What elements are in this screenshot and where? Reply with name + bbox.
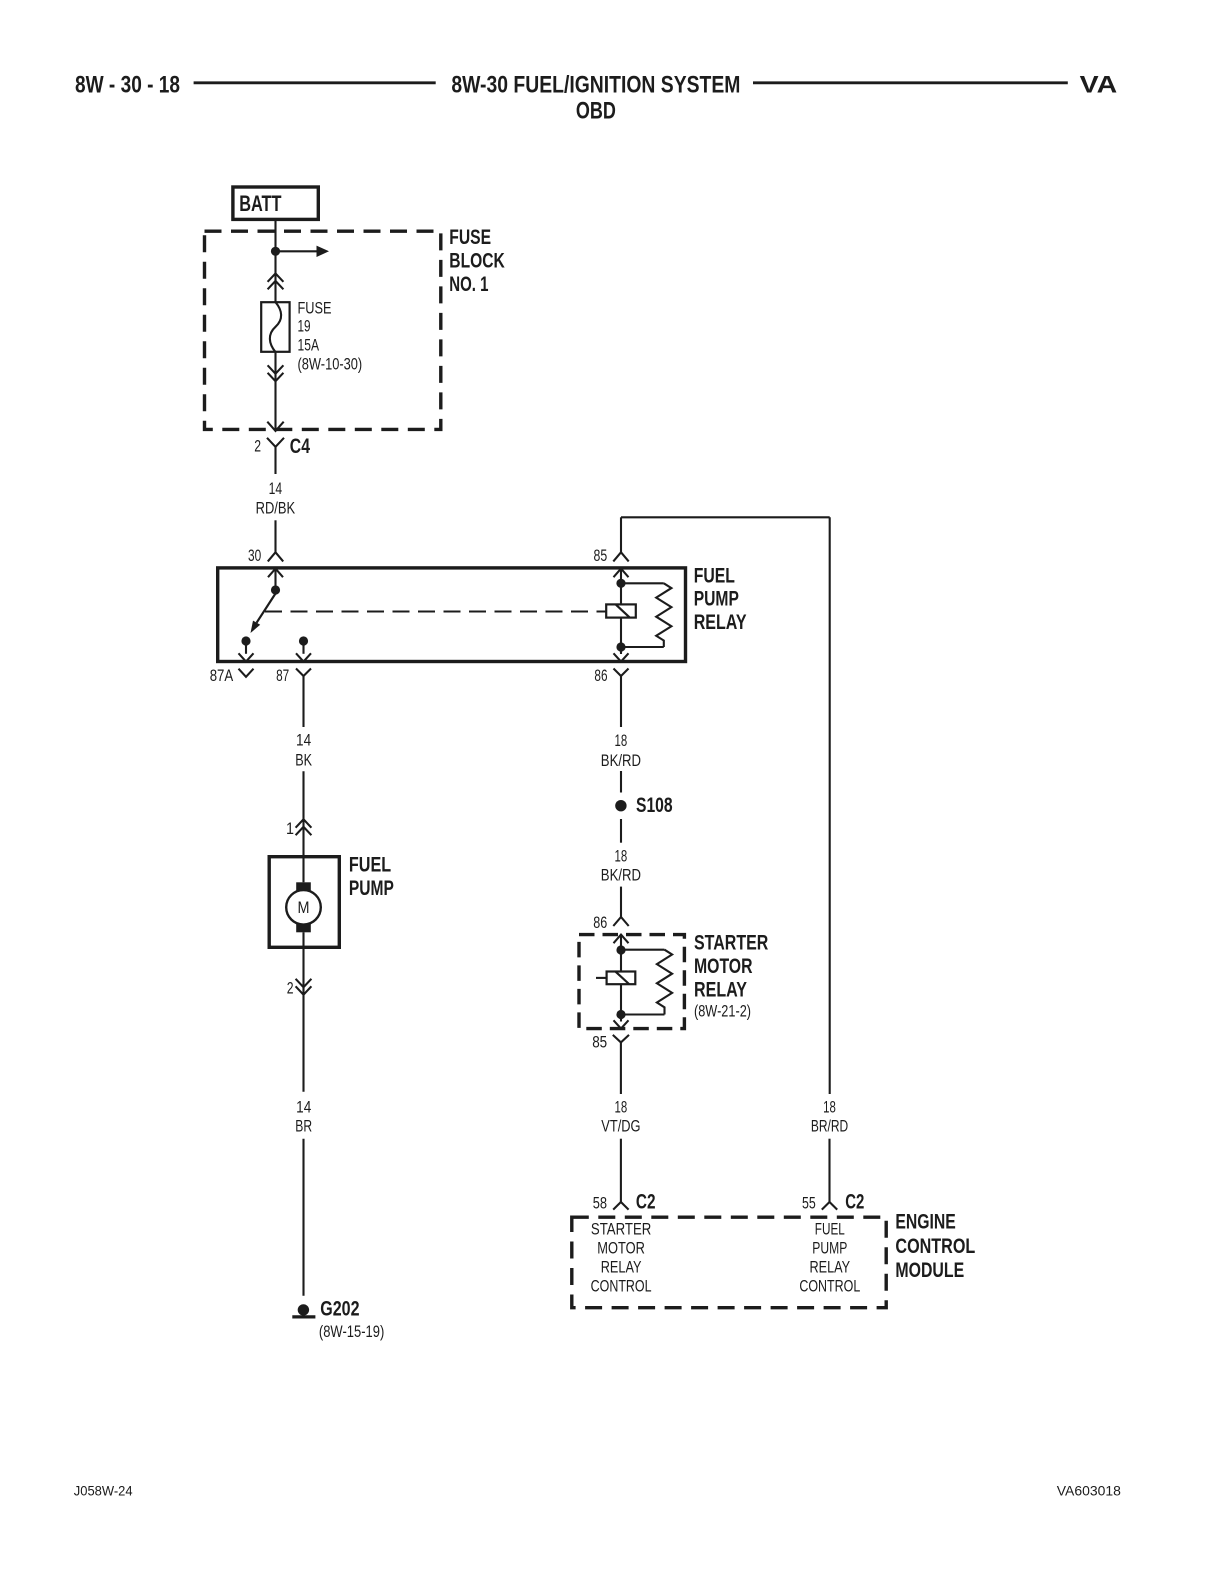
fuse value label FUSE 19 15A (8W-10-30) [298,300,363,374]
motor terminal bottom [296,924,311,932]
ECM pin 58 connector [613,1202,628,1210]
svg-text:19: 19 [298,318,311,336]
svg-text:NO. 1: NO. 1 [449,273,488,296]
wire label 18 VT/DG [601,1099,640,1136]
relay coil [606,604,636,617]
engine control module label [895,1211,975,1283]
svg-text:CONTROL: CONTROL [895,1235,975,1258]
pin 1 connector chevrons [296,819,312,835]
wire branch to other circuits [276,250,317,252]
wire to S108 [620,771,622,793]
connector C2 left [636,1190,656,1213]
svg-text:BK/RD: BK/RD [601,752,641,770]
relay switch armature [251,594,276,634]
svg-text:STARTER: STARTER [694,931,768,954]
svg-text:MOTOR: MOTOR [694,955,753,978]
svg-text:OBD: OBD [576,98,616,125]
motor terminal top [296,882,311,890]
splice S108 [615,794,673,817]
relay internal dashed link [265,611,606,613]
svg-text:CONTROL: CONTROL [591,1278,652,1296]
svg-text:RELAY: RELAY [694,978,747,1001]
fuse block no.1 dashed box [205,231,441,429]
svg-text:58: 58 [593,1194,607,1212]
node splice in fuse block [271,247,280,256]
wire to ECM pin 58 [620,1139,622,1202]
starter relay coil top node [616,945,625,954]
pin 87A internal arrow [239,653,254,661]
fuse block no.1 label [449,226,505,296]
pin 85 connector chevron [613,552,628,561]
pin 58 label [593,1194,607,1212]
pin 30 connector chevron [268,552,283,561]
svg-text:87A: 87A [210,667,234,685]
pin 86 connector [614,669,629,728]
starter relay pin 85 internal arrow [614,1020,629,1028]
svg-text:MODULE: MODULE [895,1259,964,1282]
page header left label 8W - 30 - 18 [75,72,180,99]
svg-text:BLOCK: BLOCK [449,250,505,273]
relay pin 85 internal arrow [614,569,629,605]
pin 87 internal arrow [296,653,311,661]
starter motor relay dashed box K1 [579,935,684,1029]
ECM starter motor relay control label [591,1220,652,1295]
svg-text:18: 18 [823,1099,836,1117]
svg-text:FUSE: FUSE [298,300,332,318]
svg-text:MOTOR: MOTOR [597,1239,645,1257]
svg-text:2: 2 [254,438,261,456]
pin 86 label [594,667,607,685]
wire BATT feed vertical [274,221,276,302]
svg-text:14: 14 [269,480,283,498]
wire label 14 BR [295,1099,312,1136]
wire label 18 BR/RD [811,1099,848,1136]
pin 87 connector [296,669,311,728]
starter relay coil bottom wire [620,984,622,1021]
svg-text:85: 85 [592,1033,607,1051]
pin 87 label [276,667,289,685]
wire to ground lower [302,1139,304,1296]
svg-text:PUMP: PUMP [812,1239,847,1257]
connector C2 right [845,1190,864,1213]
arrow exiting fuse block [267,422,283,431]
svg-text:RD/BK: RD/BK [256,499,296,517]
relay pin 30 internal arrow [268,569,283,590]
svg-text:87: 87 [276,667,289,685]
svg-text:C2: C2 [845,1190,864,1213]
svg-text:RELAY: RELAY [809,1259,850,1277]
svg-text:14: 14 [296,1099,311,1117]
svg-text:(8W-10-30): (8W-10-30) [298,356,363,374]
footer left J058W-24 [74,1483,133,1499]
svg-text:C2: C2 [636,1190,656,1213]
wire label 14 BK [295,731,312,769]
pin 55 label [802,1194,816,1212]
starter relay coil bottom node [616,1010,625,1019]
wire to fuel pump pin 1 [302,771,304,856]
wire to ground upper [302,998,304,1092]
svg-text:BK/RD: BK/RD [601,867,641,885]
svg-text:PUMP: PUMP [349,877,394,900]
header right label VA [1080,72,1118,99]
pin 85 label [594,547,608,565]
svg-text:30: 30 [248,547,261,565]
wire from S108 [620,819,622,843]
starter relay coil link dash [596,977,607,979]
svg-text:(8W-21-2): (8W-21-2) [694,1003,751,1021]
relay resistor bottom link [621,646,664,648]
pin 2 label [287,980,294,998]
pin 2 connector chevrons (down) [296,979,312,995]
wire label 18 BK/RD upper [601,732,641,770]
svg-text:J058W-24: J058W-24 [74,1483,133,1499]
pin 86 internal arrow [614,653,629,661]
svg-text:PUMP: PUMP [694,588,739,611]
svg-text:VA603018: VA603018 [1057,1483,1121,1499]
svg-text:(8W-15-19): (8W-15-19) [319,1323,384,1341]
battery feed box BATT [233,187,318,219]
ECM pin 55 connector [822,1202,837,1210]
svg-text:M: M [298,899,310,917]
svg-text:RELAY: RELAY [601,1259,642,1277]
svg-text:VT/DG: VT/DG [601,1117,640,1135]
svg-text:8W - 30 - 18: 8W - 30 - 18 [75,72,180,99]
wire right column to ECM [829,517,831,1094]
starter relay pin 86 chevron [613,917,628,926]
svg-text:BR: BR [295,1117,312,1135]
pin 87A connector chevron [239,669,254,677]
connector chevrons (double, up) [268,273,284,289]
svg-text:1: 1 [286,820,294,838]
fuel pump label [349,854,394,901]
wire pin 85 riser [620,517,622,552]
svg-text:FUSE: FUSE [449,226,491,249]
svg-text:BATT: BATT [239,191,282,216]
svg-text:2: 2 [287,980,294,998]
starter relay pin 85 connector [613,1035,629,1094]
svg-text:18: 18 [615,732,628,750]
starter motor relay label [694,931,768,1020]
wire fuse to C4 [274,352,276,430]
relay coil top node [616,579,625,588]
wire to relay pin 30 [274,520,276,552]
fuel pump relay label [694,565,747,634]
motor M [286,890,321,925]
svg-text:FUEL: FUEL [815,1220,845,1238]
starter relay pin 86 label [593,914,607,932]
pin 87A label [210,667,234,685]
relay resistor top link [621,582,664,584]
wire to starter relay pin 86 [620,887,622,917]
relay resistor R [656,583,671,647]
svg-text:18: 18 [615,847,628,865]
starter relay pin 86 internal arrow [614,935,629,972]
footer right VA603018 [1057,1483,1121,1499]
fuel pump motor wire bottom [302,932,304,998]
svg-text:ENGINE: ENGINE [895,1211,955,1234]
svg-text:STARTER: STARTER [591,1220,651,1238]
wire label 14 RD/BK [256,480,296,517]
svg-text:14: 14 [296,731,311,749]
svg-text:55: 55 [802,1194,816,1212]
svg-text:RELAY: RELAY [694,611,747,634]
relay common node pin 30 [271,585,280,594]
header subtitle OBD [576,98,616,125]
starter relay resistor [657,950,672,1015]
engine control module dashed box [572,1217,886,1308]
svg-text:CONTROL: CONTROL [799,1278,860,1296]
svg-text:FUEL: FUEL [349,854,391,877]
pin 2 label [254,438,261,456]
svg-text:FUEL: FUEL [694,565,735,588]
starter relay resistor top link [621,949,665,951]
wire label 18 BK/RD lower [601,847,641,884]
svg-text:85: 85 [594,547,608,565]
svg-text:15A: 15A [298,337,320,355]
starter relay coil [607,972,636,985]
wire to ECM pin 55 [828,1139,830,1202]
header title 8W-30 FUEL/IGNITION SYSTEM [451,72,740,99]
connector chevrons (double, down) [268,365,284,381]
fuel pump box M1 [269,857,339,948]
ground G202 [292,1298,384,1342]
svg-text:18: 18 [615,1099,628,1117]
relay contact node 87A [241,636,250,653]
svg-text:S108: S108 [636,794,673,817]
arrow branch continues [317,246,330,257]
fuel pump motor wire top [302,855,304,882]
pin 1 label [286,820,294,838]
connector C4 [267,435,310,474]
fuse 19 15A symbol [261,302,289,352]
svg-text:86: 86 [594,667,607,685]
relay coil bottom node [616,642,625,651]
svg-text:G202: G202 [320,1298,359,1321]
starter relay resistor bottom link [621,1013,665,1015]
fuel pump relay box U1 [218,568,686,662]
svg-text:BK: BK [295,751,312,769]
svg-text:86: 86 [593,914,607,932]
svg-text:VA: VA [1080,72,1118,99]
starter relay pin 85 label [592,1033,607,1051]
relay contact node 87 [299,636,308,653]
svg-text:8W-30 FUEL/IGNITION SYSTEM: 8W-30 FUEL/IGNITION SYSTEM [451,72,740,99]
relay coil bottom wire [620,618,622,654]
svg-text:BR/RD: BR/RD [811,1117,848,1135]
svg-text:C4: C4 [290,435,310,458]
header rule right [753,81,1068,84]
wire top horizontal run [621,516,830,518]
header rule left [194,81,436,84]
pin 30 label [248,547,261,565]
ECM fuel pump relay control label [799,1220,860,1295]
